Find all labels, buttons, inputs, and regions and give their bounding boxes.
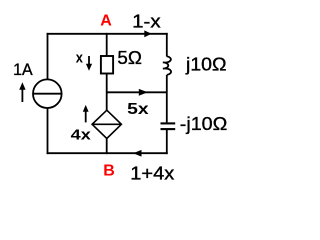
wire top rail from node A area (47, 33, 168, 35)
svg-text:B: B (103, 163, 115, 180)
svg-text:5x: 5x (127, 101, 149, 118)
wire bottom rail (47, 152, 168, 154)
wire middle branch (resistor to diamond) (106, 74, 108, 111)
svg-text:1A: 1A (13, 60, 33, 79)
svg-text:A: A (100, 13, 112, 30)
capacitor -j10ohm plates (161, 122, 176, 124)
wire middle branch lower (diamond to bottom rail) (106, 138, 108, 154)
svg-text:1-x: 1-x (132, 11, 161, 31)
arrow x downward (88, 56, 90, 65)
wire right vertical lower (capacitor to bottom rail) (166, 130, 168, 154)
inductor j10ohm coil (163, 56, 171, 75)
current source I1 1A (circle with bar) (33, 79, 62, 108)
svg-text:j10Ω: j10Ω (185, 54, 227, 74)
wire middle branch upper (node A to resistor) (106, 33, 108, 56)
svg-text:5Ω: 5Ω (117, 48, 141, 68)
resistor 5ohm (101, 56, 113, 74)
svg-text:4x: 4x (71, 127, 92, 144)
svg-text:-j10Ω: -j10Ω (180, 114, 228, 134)
arrow 1A upward (21, 89, 23, 103)
svg-text:x: x (76, 49, 84, 66)
wire right vertical middle (inductor to capacitor) (166, 75, 168, 122)
arrow 1+4x on bottom rail (133, 150, 141, 157)
wire 5x horizontal (107, 91, 167, 93)
arrow 1-x on top rail (144, 30, 151, 37)
arrow 5x on middle wire (139, 89, 148, 96)
wire left vertical lower (47, 108, 49, 154)
wire left vertical upper (47, 33, 49, 79)
arrow 4x upward (85, 111, 87, 122)
wire right vertical upper (to inductor) (166, 33, 168, 57)
svg-text:1+4x: 1+4x (130, 163, 174, 183)
dependent source 4x diamond (92, 110, 121, 138)
